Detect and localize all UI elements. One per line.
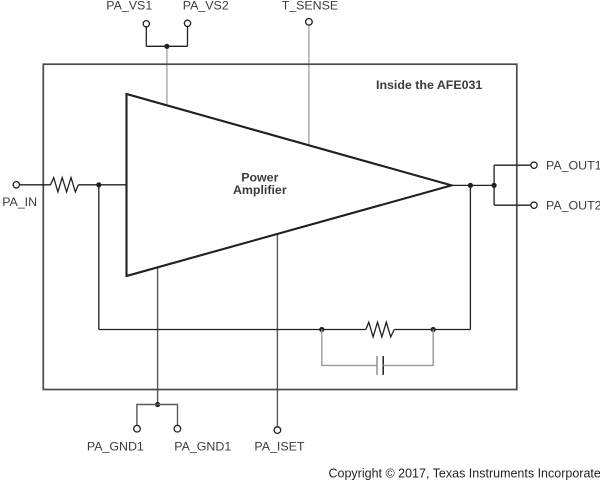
wire to PA_OUT2 — [494, 204, 531, 206]
svg-text:PA_ISET: PA_ISET — [254, 439, 304, 453]
svg-text:PA_VS2: PA_VS2 — [183, 0, 229, 13]
pin PA_GND1 terminal (left) — [134, 425, 141, 432]
wire PA_OUT bracket — [493, 165, 495, 205]
wire PA_ISET — [276, 234, 278, 427]
node: output junction B — [492, 183, 497, 188]
node: PA_VS junction — [164, 44, 169, 49]
pin PA_IN terminal — [13, 182, 19, 188]
svg-text:PA_IN: PA_IN — [2, 195, 37, 209]
wire feedback row left — [99, 329, 366, 331]
wire PA_GND vertical from amplifier — [157, 267, 159, 404]
svg-text:PA_OUT2: PA_OUT2 — [546, 198, 600, 212]
node: input junction — [96, 182, 101, 187]
wire PA_VS2 stub — [187, 27, 189, 47]
svg-text:Amplifier: Amplifier — [233, 183, 287, 197]
wire PA_VS supply into amplifier — [166, 46, 168, 105]
svg-text:PA_GND1: PA_GND1 — [174, 439, 231, 453]
pin T_SENSE terminal — [306, 19, 313, 26]
wire PA_VS1 stub — [145, 27, 147, 46]
wire PA_IN to resistor — [20, 184, 51, 186]
op-amp U1 Power Amplifier triangle — [127, 94, 452, 276]
capacitor C1 plate right — [382, 356, 384, 375]
wire resistor to amplifier input — [78, 184, 126, 186]
wire to PA_OUT1 — [494, 164, 531, 166]
wire output node down to feedback — [469, 185, 471, 329]
capacitor C1 plate left — [376, 356, 378, 375]
pin PA_GND1 terminal (right) — [174, 425, 181, 432]
wire feedback row right — [394, 329, 470, 331]
svg-text:PA_GND1: PA_GND1 — [87, 439, 144, 453]
wire PA_GND bracket — [137, 405, 178, 426]
node: output junction A — [468, 183, 473, 188]
svg-text:T_SENSE: T_SENSE — [282, 0, 338, 13]
wire capacitor branch left — [322, 330, 377, 366]
svg-text:Copyright © 2017, Texas Instru: Copyright © 2017, Texas Instruments Inco… — [329, 467, 600, 481]
pin PA_OUT2 terminal — [531, 202, 537, 208]
resistor R2 (feedback) — [366, 322, 395, 337]
wire amplifier output — [452, 184, 495, 186]
AFE031 boundary box — [43, 64, 517, 389]
pin PA_OUT1 terminal — [531, 162, 537, 168]
svg-text:PA_VS1: PA_VS1 — [106, 0, 152, 13]
node: feedback right junction — [431, 327, 436, 332]
pin PA_VS2 terminal — [184, 20, 190, 26]
resistor R1 (input) — [51, 178, 79, 192]
svg-text:Inside the AFE031: Inside the AFE031 — [376, 78, 482, 92]
wire T_SENSE — [308, 25, 310, 145]
node: feedback left junction — [319, 327, 324, 332]
svg-text:PA_OUT1: PA_OUT1 — [546, 158, 600, 172]
pin PA_ISET terminal — [274, 427, 281, 434]
node: PA_GND junction — [155, 402, 160, 407]
wire input node down to feedback — [98, 185, 100, 330]
wire PA_VS bracket — [146, 45, 187, 47]
wire capacitor branch right — [383, 330, 433, 366]
pin PA_VS1 terminal — [143, 21, 149, 27]
